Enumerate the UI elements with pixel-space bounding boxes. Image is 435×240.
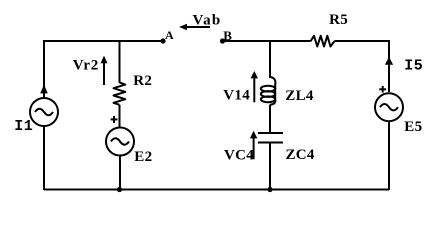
svg-text:E5: E5 [404, 119, 422, 135]
wire middle branch lower (capacitor to bottom wire) [269, 143, 271, 191]
polarity plus sign of E2 [111, 116, 118, 123]
label B [223, 28, 232, 43]
junction dot at bottom of middle branch [267, 187, 272, 192]
svg-text:V14: V14 [223, 87, 250, 103]
svg-text:I5: I5 [404, 58, 423, 75]
wire right vertical lower (E5 to bottom wire) [388, 122, 390, 190]
svg-text:ZC4: ZC4 [286, 147, 315, 163]
voltage source E2 circle with sine [106, 128, 134, 156]
wire R2 branch lower (E2 to bottom wire) [119, 157, 121, 191]
junction dot at bottom of E2 branch [117, 187, 122, 192]
label Vr2 [73, 57, 99, 73]
current arrow I5 (pointing up, on right wire) [385, 57, 393, 65]
current source I1 arrow (pointing up, on wire above circle) [40, 85, 48, 94]
svg-text:R5: R5 [329, 12, 348, 28]
label Vl4 [223, 87, 250, 103]
wire left vertical lower (I1 circle to bottom wire) [43, 127, 45, 190]
arrow Vab (pointing left) [179, 24, 210, 31]
wire R2 branch upper (top wire to resistor) [119, 41, 121, 83]
label ZL4 [285, 88, 314, 104]
capacitor ZC4 plates [258, 133, 283, 143]
svg-text:I1: I1 [14, 118, 33, 135]
svg-text:A: A [165, 28, 174, 42]
svg-text:Vr2: Vr2 [73, 57, 99, 73]
wire top-left segment from left corner to node A [44, 40, 163, 42]
polarity plus sign of E5 [379, 86, 386, 93]
resistor R2 zigzag [114, 83, 126, 105]
wire left vertical upper (corner down to I1 circle) [43, 40, 45, 97]
label A [165, 28, 174, 42]
label VC4 [224, 147, 254, 163]
wire R2 branch middle (resistor to E2 circle) [119, 105, 121, 127]
arrow Vr2 (pointing up) [101, 56, 108, 85]
wire right vertical upper (corner down to E5 circle) [388, 40, 390, 92]
wire top-right segment from R5 to right corner [334, 40, 390, 42]
voltage source E5 circle with sine [375, 93, 403, 121]
label E2 [134, 149, 152, 165]
svg-text:Vab: Vab [193, 12, 222, 28]
current source I1 circle with sine [30, 98, 58, 126]
arrow Vl4 (pointing up) [251, 71, 258, 102]
label I5 [404, 58, 423, 75]
label Vab [193, 12, 222, 28]
wire middle branch between inductor and capacitor [269, 105, 271, 133]
svg-text:ZL4: ZL4 [285, 88, 314, 104]
arrow VC4 (pointing up) [250, 131, 257, 159]
label ZC4 [286, 147, 315, 163]
node A dot [160, 38, 165, 43]
svg-text:R2: R2 [133, 73, 152, 89]
resistor R5 zigzag [311, 36, 335, 47]
label I1 [14, 118, 33, 135]
label E5 [404, 119, 422, 135]
wire middle branch upper (top wire to inductor) [269, 40, 271, 78]
inductor ZL4 coil [261, 77, 276, 105]
svg-text:E2: E2 [134, 149, 152, 165]
label R2 [133, 73, 152, 89]
svg-text:VC4: VC4 [224, 147, 254, 163]
node B dot [220, 38, 225, 43]
wire top-right segment from node B to R5 [223, 40, 311, 42]
wire bottom horizontal [44, 189, 389, 191]
label R5 [329, 12, 348, 28]
